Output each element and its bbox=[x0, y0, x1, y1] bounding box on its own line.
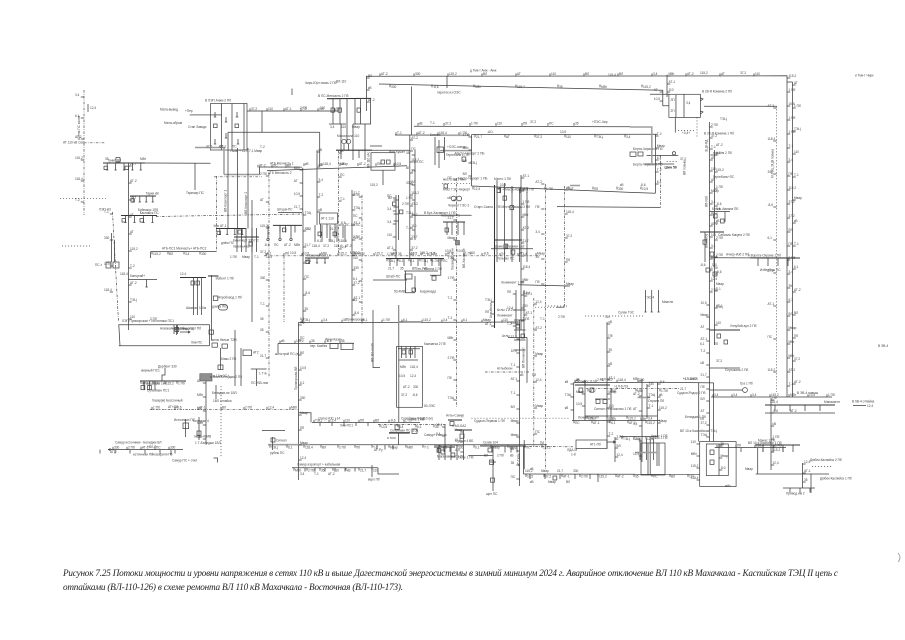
svg-text:ЛДА-М: ЛДА-М bbox=[567, 448, 577, 452]
svg-text:2 Пб: 2 Пб bbox=[402, 202, 409, 206]
svg-text:ПС: ПС bbox=[232, 145, 237, 149]
svg-text:118,4: 118,4 bbox=[75, 177, 83, 181]
feeder stub2 bbox=[344, 225, 346, 242]
svg-text:6,1: 6,1 bbox=[267, 252, 272, 256]
izb hang marks bbox=[713, 258, 715, 267]
wire A3 to A1 bbox=[145, 162, 211, 164]
wire tap bbox=[152, 196, 154, 202]
svg-text:АТ: АТ bbox=[570, 187, 574, 191]
dark block dag bbox=[200, 374, 212, 381]
svg-text:АТ-1: АТ-1 bbox=[563, 475, 570, 479]
tap feeder bbox=[541, 208, 544, 210]
wire riser x585 bbox=[584, 380, 586, 421]
svg-text:10,5: 10,5 bbox=[511, 349, 517, 353]
svg-text:МВт: МВт bbox=[475, 85, 482, 89]
tap feeder bbox=[706, 388, 709, 390]
tap feeder bbox=[710, 203, 713, 205]
breaker tick bbox=[237, 139, 239, 144]
svg-text:115,2: 115,2 bbox=[647, 421, 655, 425]
feeder drop bbox=[332, 99, 334, 125]
svg-text:37,2: 37,2 bbox=[768, 269, 774, 273]
feeder tec1 bbox=[326, 224, 328, 238]
svg-text:АТ-2: АТ-2 bbox=[130, 179, 137, 183]
izb cluster sw bbox=[706, 268, 710, 272]
city inner ticks bbox=[399, 359, 418, 361]
svg-text:1 Пб: 1 Пб bbox=[775, 443, 782, 447]
svg-text:ТЭЦ: ТЭЦ bbox=[303, 318, 310, 322]
svg-text:АТ-2: АТ-2 bbox=[259, 163, 266, 167]
tap samur bbox=[114, 450, 116, 454]
svg-text:Миатли: Миатли bbox=[662, 300, 673, 304]
svg-text:35: 35 bbox=[559, 85, 563, 89]
svg-text:кВ: кВ bbox=[794, 219, 798, 223]
tap feeder bbox=[203, 424, 206, 426]
svg-text:ПС: ПС bbox=[526, 445, 531, 449]
svg-text:115,2: 115,2 bbox=[130, 247, 138, 251]
svg-text:10,5: 10,5 bbox=[441, 445, 447, 449]
transformer kizT a bbox=[445, 228, 449, 232]
tap line bbox=[357, 163, 359, 166]
tap feeder bbox=[706, 340, 709, 342]
wire top line 330kV bbox=[366, 76, 787, 397]
svg-text:АТ-1: АТ-1 bbox=[609, 376, 616, 380]
dash vertical x221 bbox=[220, 386, 222, 457]
tap samur bbox=[144, 450, 146, 454]
tap feeder bbox=[317, 166, 320, 168]
wire tap bbox=[115, 163, 117, 170]
svg-text:ПС: ПС bbox=[549, 122, 554, 126]
svg-text:Гергебиль+ПС: Гергебиль+ПС bbox=[713, 175, 735, 179]
wire ring top bbox=[472, 133, 658, 135]
tick chain bbox=[394, 206, 399, 208]
wire x171 stub bbox=[170, 450, 172, 455]
svg-text:10,5: 10,5 bbox=[395, 162, 401, 166]
svg-text:12,4: 12,4 bbox=[867, 404, 873, 408]
svg-text:Уллубий-аул 2 Пб: Уллубий-аул 2 Пб bbox=[730, 324, 757, 328]
chain x396 upper bbox=[395, 195, 397, 259]
cluster B-left of ring bbox=[440, 150, 471, 152]
cluster AT2 bbox=[243, 350, 252, 356]
svg-text:6,1: 6,1 bbox=[657, 156, 662, 160]
tap line bbox=[568, 187, 570, 190]
tap atb bbox=[150, 252, 152, 258]
tap feeder bbox=[773, 239, 776, 241]
dash-dot y183 bbox=[442, 183, 472, 185]
svg-text:В 9В-4 отпайка: В 9В-4 отпайка bbox=[852, 400, 875, 404]
svg-text:АТ-1: АТ-1 bbox=[768, 302, 775, 306]
svg-text:115,2: 115,2 bbox=[411, 158, 419, 162]
tap samur bbox=[159, 450, 161, 454]
svg-text:Т-1: Т-1 bbox=[711, 145, 716, 149]
svg-text:Шин 50: Шин 50 bbox=[665, 166, 677, 170]
dash north of SE loop bbox=[545, 305, 567, 307]
box arkw bbox=[641, 443, 665, 475]
belgu cluster bbox=[710, 211, 731, 213]
tap line bbox=[445, 253, 447, 256]
svg-text:Мвар: Мвар bbox=[492, 445, 500, 449]
generator G1 bbox=[451, 196, 456, 201]
wire top link x447 bbox=[446, 76, 448, 88]
tap feeder bbox=[534, 329, 537, 331]
wire south bus x521 lower bbox=[519, 320, 521, 486]
svg-text:кВ: кВ bbox=[565, 406, 569, 410]
tap y474 bbox=[589, 474, 591, 479]
feeder arkw bbox=[646, 439, 648, 461]
svg-text:Пб: Пб bbox=[594, 187, 598, 191]
svg-text:-8,6: -8,6 bbox=[768, 203, 774, 207]
tap line bbox=[306, 468, 308, 471]
tap feeder bbox=[534, 407, 537, 409]
feeder tec1 bbox=[334, 224, 336, 238]
tap feeder bbox=[352, 209, 355, 211]
wire derb zig bbox=[162, 368, 165, 381]
svg-text:Т-2: Т-2 bbox=[130, 264, 135, 268]
wire riser x811 bbox=[810, 474, 812, 493]
svg-text:37,2: 37,2 bbox=[740, 71, 746, 75]
svg-text:21,7: 21,7 bbox=[523, 239, 529, 243]
wire kaspiysk vertical x607 bbox=[606, 322, 608, 449]
wire loop SE left bbox=[573, 383, 575, 421]
tap privod bbox=[789, 488, 791, 493]
wire tap bbox=[316, 258, 318, 263]
tap feeder bbox=[565, 285, 568, 287]
svg-text:110: 110 bbox=[387, 233, 392, 237]
tap feeder bbox=[300, 169, 303, 171]
breaker tick bbox=[214, 139, 216, 144]
tap line bbox=[573, 421, 575, 424]
svg-text:-8,6: -8,6 bbox=[176, 406, 182, 410]
transformer tec a bbox=[710, 450, 714, 454]
tap line bbox=[687, 474, 689, 477]
svg-text:Буйнакск 1Пб: Буйнакск 1Пб bbox=[138, 208, 158, 212]
svg-text:Т-1: Т-1 bbox=[314, 472, 319, 476]
tick chain bbox=[394, 220, 399, 222]
drop ring feeder bbox=[526, 192, 528, 262]
tap feeder bbox=[129, 199, 132, 201]
wire tap bbox=[140, 163, 142, 170]
transformer T2 A1 bbox=[235, 124, 239, 128]
block central box bbox=[405, 274, 412, 279]
svg-text:110: 110 bbox=[718, 443, 723, 447]
tap line bbox=[249, 108, 251, 111]
tap feeder bbox=[803, 463, 806, 465]
svg-text:3,4: 3,4 bbox=[752, 393, 757, 397]
tap feeder bbox=[299, 324, 302, 326]
tap feeder bbox=[715, 256, 718, 258]
tap line bbox=[561, 474, 563, 477]
tap feeder bbox=[303, 214, 306, 216]
svg-text:Атлы: Атлы bbox=[502, 334, 510, 338]
tap feeder bbox=[534, 355, 537, 357]
svg-text:3,4: 3,4 bbox=[648, 417, 653, 421]
wire vertical x352 bbox=[351, 190, 353, 323]
tap feeder bbox=[367, 89, 370, 91]
tap feeder bbox=[442, 426, 445, 428]
tap feeder bbox=[771, 438, 774, 440]
tap line bbox=[421, 320, 423, 323]
tap line bbox=[626, 416, 628, 419]
tap feeder bbox=[129, 284, 132, 286]
wire sul drop bbox=[398, 433, 400, 445]
tap ring bottom bbox=[526, 187, 528, 193]
svg-text:Пб: Пб bbox=[789, 242, 793, 246]
svg-text:ВЛ: ВЛ bbox=[393, 252, 397, 256]
wire priморская line bbox=[300, 321, 470, 323]
belidji cluster bbox=[185, 419, 187, 437]
svg-text:12,4: 12,4 bbox=[804, 460, 810, 464]
svg-text:2 Пб: 2 Пб bbox=[581, 475, 588, 479]
cluster x490 south bbox=[480, 445, 524, 447]
wire tap bbox=[143, 216, 145, 223]
tap line bbox=[324, 341, 326, 344]
tap feeder bbox=[793, 291, 796, 293]
svg-text:-8,6: -8,6 bbox=[716, 270, 722, 274]
tap feeder bbox=[352, 239, 355, 241]
svg-text:Пб: Пб bbox=[336, 107, 340, 111]
svg-text:21,7: 21,7 bbox=[701, 373, 707, 377]
svg-text:Пб: Пб bbox=[701, 385, 705, 389]
svg-text:3,4: 3,4 bbox=[300, 472, 305, 476]
dash-dot link bbox=[156, 214, 303, 217]
wire A3 drop tarnair bbox=[194, 163, 196, 190]
feeder derbent bbox=[149, 381, 151, 390]
tap feeder bbox=[615, 456, 618, 458]
svg-text:Сабиаль Кикуни 2 Пб: Сабиаль Кикуни 2 Пб bbox=[718, 233, 750, 237]
feeder mag bbox=[443, 447, 445, 452]
tap feeder bbox=[655, 159, 658, 161]
tap feeder bbox=[491, 325, 494, 327]
svg-text:МВт: МВт bbox=[637, 389, 644, 393]
tap line bbox=[164, 381, 166, 384]
svg-text:ВЛ 10-я Каспийская ТЭЦ: ВЛ 10-я Каспийская ТЭЦ bbox=[680, 429, 717, 433]
svg-text:115,2: 115,2 bbox=[423, 318, 431, 322]
svg-text:Старт-Скала 1 Пб Место-Камы: Старт-Скала 1 Пб Место-Камыш 2 Пб bbox=[474, 205, 530, 209]
bus A13 bbox=[305, 257, 329, 259]
tap samur bbox=[129, 450, 131, 454]
svg-text:кВ: кВ bbox=[510, 454, 514, 458]
svg-text:35: 35 bbox=[341, 339, 345, 343]
feeder sc bbox=[438, 445, 440, 460]
svg-text:37,2: 37,2 bbox=[251, 107, 257, 111]
svg-text:ТЭЦ: ТЭЦ bbox=[271, 445, 278, 449]
svg-text:Мвар: Мвар bbox=[511, 419, 519, 423]
tap line bbox=[591, 421, 593, 424]
tap feeder bbox=[266, 201, 269, 203]
tap feeder bbox=[521, 320, 524, 322]
tap line bbox=[735, 445, 737, 448]
tap feeder bbox=[299, 414, 302, 416]
svg-text:Мвар: Мвар bbox=[701, 313, 709, 317]
transformer rb a bbox=[503, 196, 507, 200]
tap feeder bbox=[660, 91, 663, 93]
svg-text:Пб: Пб bbox=[360, 418, 364, 422]
tap line bbox=[583, 73, 585, 76]
tap feeder bbox=[787, 161, 790, 163]
hushet inner b bbox=[387, 160, 391, 164]
svg-text:1 Пб: 1 Пб bbox=[789, 116, 796, 120]
dashed atly line bbox=[471, 417, 570, 419]
hiv entry bbox=[299, 413, 312, 423]
svg-text:3,4: 3,4 bbox=[686, 101, 691, 105]
station d10 south bbox=[755, 444, 800, 446]
wire vertical x642 bbox=[641, 379, 643, 462]
svg-text:Мвар: Мвар bbox=[711, 189, 719, 193]
tap feeder bbox=[412, 199, 415, 201]
tap line bbox=[443, 123, 445, 126]
svg-text:Т-1: Т-1 bbox=[794, 242, 799, 246]
tap feeder bbox=[367, 77, 370, 79]
svg-text:Мвар: Мвар bbox=[511, 433, 519, 437]
svg-text:115,2: 115,2 bbox=[75, 156, 83, 160]
svg-text:ПС: ПС bbox=[443, 259, 448, 263]
tap line bbox=[389, 85, 391, 88]
svg-text:Т-2: Т-2 bbox=[701, 349, 706, 353]
svg-text:я того: я того bbox=[387, 436, 396, 440]
tap feeder bbox=[491, 301, 494, 303]
tap feeder bbox=[615, 447, 618, 449]
svg-text:115,2: 115,2 bbox=[771, 393, 779, 397]
wire atb line bbox=[151, 251, 217, 253]
tap feeder bbox=[412, 229, 415, 231]
svg-text:кВ: кВ bbox=[609, 320, 613, 324]
tap feeder bbox=[697, 467, 700, 469]
tap line bbox=[616, 380, 618, 383]
svg-text:жилы белые Т2М: жилы белые Т2М bbox=[211, 338, 237, 342]
svg-text:115,2: 115,2 bbox=[370, 183, 378, 187]
svg-text:МВт: МВт bbox=[400, 365, 407, 369]
svg-text:1 Пб: 1 Пб bbox=[661, 389, 668, 393]
stub y155 bbox=[711, 154, 718, 156]
svg-text:АТ-1: АТ-1 bbox=[669, 80, 676, 84]
wire vertical x362 dashed bbox=[361, 195, 363, 324]
transformer x493 bbox=[490, 460, 494, 464]
tap feeder bbox=[521, 281, 524, 283]
tap feeder bbox=[110, 291, 113, 293]
tap feeder bbox=[787, 287, 790, 289]
signal boxes bbox=[596, 400, 600, 404]
svg-text:МВт: МВт bbox=[691, 452, 698, 456]
tap feeder bbox=[410, 161, 413, 163]
transformer belgu a bbox=[714, 214, 718, 218]
tap line bbox=[403, 420, 405, 423]
tap feeder bbox=[266, 305, 269, 307]
tap line bbox=[469, 123, 471, 126]
svg-text:ВЛ повыш: ВЛ повыш bbox=[683, 159, 687, 175]
wire vertical x317 bbox=[316, 150, 318, 225]
svg-text:2 Пб: 2 Пб bbox=[608, 417, 615, 421]
tap feeder bbox=[412, 169, 415, 171]
svg-text:-8,6: -8,6 bbox=[433, 85, 439, 89]
tap line bbox=[243, 407, 245, 410]
tap line bbox=[379, 73, 381, 76]
svg-text:место ПС1 Мин: место ПС1 Мин bbox=[443, 178, 466, 182]
svg-text:АТ: АТ bbox=[519, 252, 523, 256]
wire feeder x415 bbox=[414, 150, 416, 240]
ring right cluster bbox=[630, 152, 636, 156]
tap line bbox=[388, 420, 390, 423]
svg-text:2 Пб: 2 Пб bbox=[353, 193, 360, 197]
scan artifact bracket bbox=[898, 553, 900, 562]
tap line bbox=[317, 108, 319, 111]
tap feeder bbox=[129, 301, 132, 303]
tap feeder bbox=[317, 181, 320, 183]
tap y474 bbox=[544, 474, 546, 479]
tap feeder bbox=[787, 315, 790, 317]
svg-text:115,2: 115,2 bbox=[588, 417, 596, 421]
svg-text:1 Пб: 1 Пб bbox=[383, 318, 390, 322]
tap feeder bbox=[565, 189, 568, 191]
svg-text:АТ: АТ bbox=[701, 325, 705, 329]
svg-text:Новофиля Пб: Новофиля Пб bbox=[152, 452, 173, 456]
feeder kizT bbox=[451, 222, 453, 235]
gray overlay west bbox=[268, 444, 310, 446]
tap line bbox=[633, 474, 635, 477]
svg-text:110: 110 bbox=[345, 418, 350, 422]
svg-text:АТ-2: АТ-2 bbox=[768, 104, 775, 108]
tap c7 bbox=[334, 468, 336, 472]
tap line bbox=[525, 474, 527, 477]
tap line bbox=[355, 253, 357, 256]
svg-text:МВт: МВт bbox=[669, 72, 676, 76]
tap feeder bbox=[715, 154, 718, 156]
feeder d10s bbox=[772, 445, 774, 452]
tap line bbox=[685, 73, 687, 76]
wire ring left bbox=[471, 135, 473, 187]
svg-text:118,4: 118,4 bbox=[608, 73, 616, 77]
svg-text:3,4: 3,4 bbox=[626, 135, 631, 139]
svg-text:21,7: 21,7 bbox=[680, 387, 686, 391]
svg-text:330: 330 bbox=[260, 276, 266, 280]
svg-text:6,1: 6,1 bbox=[611, 421, 616, 425]
svg-text:37,2: 37,2 bbox=[711, 134, 717, 138]
feeder izb bbox=[767, 258, 769, 266]
wire derbent riser bbox=[205, 381, 207, 445]
tap feeder bbox=[655, 171, 658, 173]
tap feeder bbox=[639, 410, 642, 412]
svg-text:АТ-Тюбе: АТ-Тюбе bbox=[517, 453, 521, 466]
tap feeder bbox=[647, 407, 650, 409]
tap feeder bbox=[710, 181, 713, 183]
svg-text:В ЭВ-4: В ЭВ-4 bbox=[878, 344, 888, 348]
svg-text:330: 330 bbox=[523, 304, 529, 308]
tap feeder bbox=[639, 425, 642, 427]
svg-text:Гра 1 Пб: Гра 1 Пб bbox=[740, 382, 753, 386]
magaramkent cluster bbox=[434, 446, 455, 448]
svg-text:АТ-2: АТ-2 bbox=[328, 472, 335, 476]
svg-text:Ленинкент 1 Пб: Ленинкент 1 Пб bbox=[501, 281, 524, 285]
tap line bbox=[341, 320, 343, 323]
tap line bbox=[753, 73, 755, 76]
svg-text:1ВЛ отпайка: 1ВЛ отпайка bbox=[213, 399, 232, 403]
tap line bbox=[339, 341, 341, 344]
generator M2 bbox=[346, 139, 350, 143]
transformer botlih bbox=[437, 147, 444, 153]
svg-text:10,5: 10,5 bbox=[381, 425, 387, 429]
samur ps corner bbox=[214, 458, 218, 463]
tap line bbox=[534, 134, 536, 137]
svg-text:110: 110 bbox=[268, 107, 273, 111]
svg-text:АТ-2: АТ-2 bbox=[381, 72, 388, 76]
wire kapchugay bbox=[128, 279, 157, 281]
svg-text:21,7: 21,7 bbox=[557, 469, 563, 473]
svg-text:1 Пб: 1 Пб bbox=[471, 122, 478, 126]
tap feeder bbox=[516, 324, 519, 326]
wire long vertical x300 bbox=[299, 212, 304, 480]
svg-text:10,5: 10,5 bbox=[457, 249, 463, 253]
tap feeder bbox=[607, 351, 610, 353]
arrow bottom c7 bbox=[371, 465, 373, 477]
wire leninkent riser x524 bbox=[523, 290, 525, 338]
